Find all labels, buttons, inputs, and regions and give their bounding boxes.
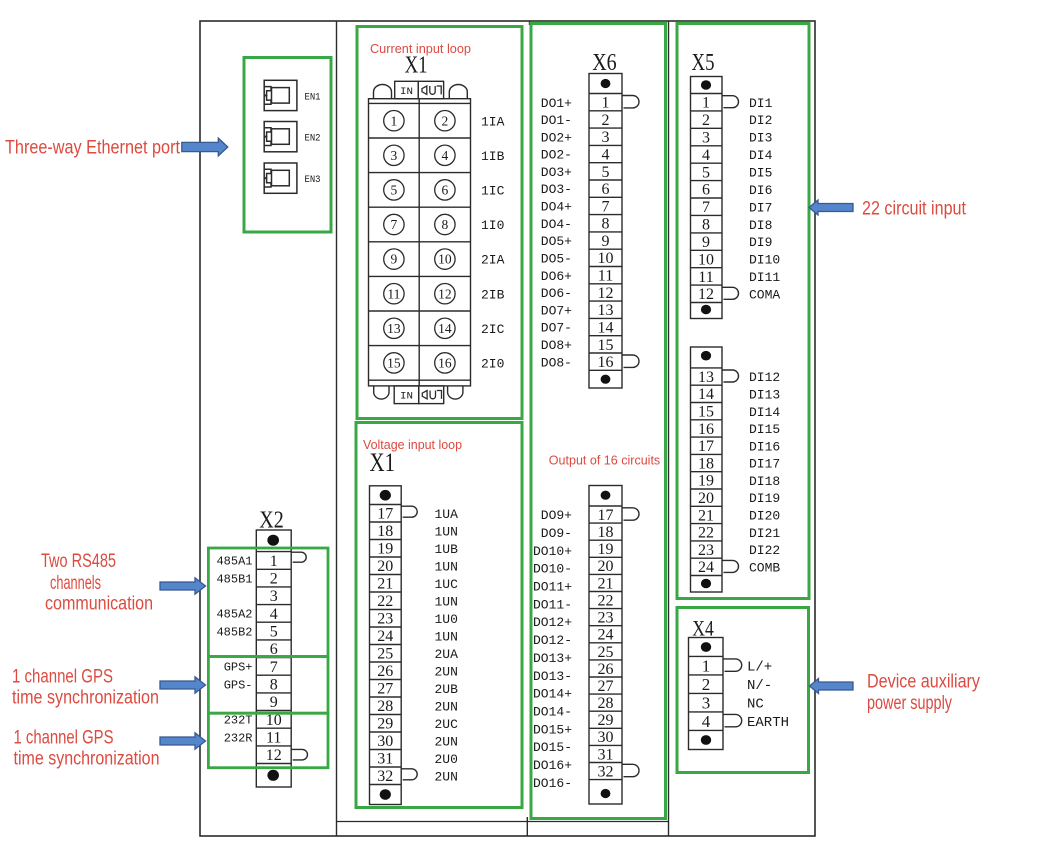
svg-text:32: 32 (377, 768, 393, 785)
X6 terminal 6 (DO3-) (541, 181, 610, 198)
X1 voltage terminal 22 (377, 593, 458, 610)
svg-text:DI7: DI7 (749, 200, 772, 215)
svg-text:DO3+: DO3+ (541, 165, 572, 180)
X4 bottom keying dot (701, 735, 711, 745)
RS232 group green box (208, 713, 328, 768)
svg-text:1 channel GPS: 1 channel GPS (14, 728, 114, 749)
X1 current terminal 8 (435, 214, 455, 234)
X6 terminal 21 (DO11+) (533, 575, 614, 594)
svg-text:3: 3 (270, 588, 278, 605)
svg-text:32: 32 (598, 763, 614, 780)
svg-text:17: 17 (698, 438, 714, 455)
X1 voltage terminal 30 (377, 733, 458, 750)
X6 terminal 27 (DO14+) (533, 678, 614, 702)
X4 terminal 4 (EARTH) (702, 712, 789, 731)
X1 voltage terminal 20 (377, 558, 458, 575)
X1 voltage terminal 24 (377, 628, 458, 645)
svg-text:DO1-: DO1- (541, 113, 572, 128)
X5 terminal 9 (DI9) (702, 234, 772, 251)
svg-text:22: 22 (377, 593, 393, 610)
svg-text:DI20: DI20 (749, 509, 780, 524)
svg-text:4: 4 (702, 147, 710, 164)
svg-text:9: 9 (602, 233, 610, 250)
svg-text:DI8: DI8 (749, 218, 772, 233)
svg-text:31: 31 (598, 746, 614, 763)
X5 terminal 19 (DI18) (698, 473, 780, 490)
X5 terminal 7 (DI7) (702, 199, 772, 216)
X5 terminal 8 (DI8) (702, 217, 772, 234)
svg-text:3: 3 (602, 129, 610, 146)
svg-text:EN2: EN2 (305, 133, 321, 145)
svg-text:1U0: 1U0 (435, 612, 458, 627)
svg-text:2UN: 2UN (435, 769, 458, 784)
X6 terminal 28 (DO14-) (533, 695, 614, 720)
svg-text:14: 14 (438, 321, 452, 336)
X6 terminal 32 (DO16-) (533, 763, 639, 791)
svg-text:5: 5 (702, 164, 710, 181)
svg-text:12: 12 (598, 285, 614, 302)
svg-text:16: 16 (438, 356, 452, 371)
svg-text:18: 18 (598, 524, 614, 541)
X5 terminal 1 (DI1) (702, 95, 773, 112)
svg-text:12: 12 (266, 747, 282, 764)
X1 current terminal 9 (384, 249, 404, 269)
X6 terminal 9 (DO5+) (541, 233, 610, 250)
svg-text:1IB: 1IB (481, 149, 505, 164)
X4 terminal 1 (L/+) (702, 656, 772, 675)
svg-text:DI21: DI21 (749, 526, 780, 541)
svg-text:4: 4 (602, 147, 610, 164)
svg-text:22: 22 (698, 525, 714, 542)
X1 voltage terminal 18 (377, 523, 458, 540)
X2 terminal 3 (270, 588, 278, 605)
svg-text:DI17: DI17 (749, 457, 780, 472)
svg-text:COMB: COMB (749, 561, 780, 576)
X5 upper connector body (691, 77, 723, 319)
svg-text:232T: 232T (224, 714, 253, 728)
X1 voltage terminal 26 (377, 663, 458, 680)
svg-text:2I0: 2I0 (481, 357, 504, 372)
X6 terminal 16 (DO8-) (541, 354, 639, 371)
svg-text:22: 22 (598, 592, 614, 609)
X6 terminal 24 (DO12-) (533, 627, 614, 649)
voltage input loop green box (356, 423, 522, 808)
X1 current terminal 3 (384, 145, 404, 165)
svg-text:17: 17 (377, 506, 393, 523)
svg-text:Three-way Ethernet port: Three-way Ethernet port (5, 138, 181, 159)
svg-text:6: 6 (602, 181, 610, 198)
X2 terminal 9 (270, 694, 278, 711)
svg-text:DO8+: DO8+ (541, 338, 572, 353)
svg-text:20: 20 (377, 558, 393, 575)
X1 current terminal 2 (435, 111, 455, 131)
X1 current terminal 10 (435, 249, 455, 269)
svg-text:DI1: DI1 (749, 96, 773, 111)
svg-text:14: 14 (698, 386, 714, 403)
svg-text:1: 1 (270, 553, 278, 570)
panel divider 3 (668, 21, 670, 836)
X1 voltage terminal 21 (377, 576, 458, 593)
X6 terminal 19 (DO10+) (533, 541, 614, 559)
X1 current terminal 11 (384, 284, 404, 304)
X6 terminal 12 (DO6-) (541, 285, 614, 302)
X6 upper connector body (589, 74, 622, 389)
svg-text:DI9: DI9 (749, 235, 772, 250)
X5 terminal 3 (DI3) (702, 130, 772, 147)
arrow to ethernet ports (182, 138, 228, 156)
svg-text:DI5: DI5 (749, 166, 772, 181)
label: 1 channel GPS time synchronization (GPS) (12, 667, 159, 709)
ethernet port EN1 (264, 80, 320, 110)
svg-text:DO14-: DO14- (533, 705, 572, 720)
svg-text:2: 2 (702, 675, 711, 694)
svg-text:1: 1 (391, 113, 398, 128)
arrow to RS232 terminals (160, 733, 206, 749)
X5 terminal 4 (DI4) (702, 147, 773, 164)
svg-text:6: 6 (442, 183, 449, 198)
X1 current terminal 6 (435, 180, 455, 200)
svg-text:9: 9 (391, 252, 398, 267)
X6 terminal 18 (DO9-) (541, 524, 614, 541)
X5 terminal 22 (DI21) (698, 525, 780, 542)
svg-text:DO2-: DO2- (541, 148, 572, 163)
label: Device auxiliary power supply (867, 672, 980, 714)
X2 terminal 11 (224, 729, 282, 746)
X6 terminal 13 (DO7+) (541, 302, 614, 319)
X1 voltage terminal 19 (377, 541, 458, 558)
X5 terminal 16 (DI15) (698, 421, 780, 438)
svg-text:15: 15 (698, 404, 714, 421)
X5 terminal 21 (DI20) (698, 507, 780, 524)
X1 top IN marker box (395, 81, 419, 98)
svg-text:DO4+: DO4+ (541, 200, 572, 215)
svg-text:DI15: DI15 (749, 422, 780, 437)
svg-text:5: 5 (391, 183, 398, 198)
current input loop green box (357, 27, 522, 419)
svg-text:20: 20 (698, 490, 714, 507)
svg-text:time synchronization: time synchronization (14, 749, 160, 770)
svg-text:9: 9 (270, 694, 278, 711)
svg-text:1UN: 1UN (435, 524, 458, 539)
X6 lower connector body (589, 486, 622, 805)
X1 current terminal 4 (435, 145, 455, 165)
device outer frame (200, 21, 815, 836)
svg-text:30: 30 (377, 733, 393, 750)
svg-text:DO2+: DO2+ (541, 130, 572, 145)
panel divider 1 (336, 21, 338, 836)
X2 top keying dot (267, 535, 279, 546)
svg-text:channels: channels (50, 573, 101, 594)
svg-text:power supply: power supply (867, 693, 952, 714)
X4 terminal 3 (NC) (702, 693, 764, 712)
X6 terminal 1 (DO1+) (541, 95, 639, 112)
svg-text:DO7-: DO7- (541, 321, 572, 336)
X6 terminal 7 (DO4+) (541, 198, 610, 215)
svg-text:time synchronization: time synchronization (12, 688, 159, 709)
X4 top keying dot (701, 642, 711, 652)
svg-text:28: 28 (598, 695, 614, 712)
svg-text:2: 2 (602, 112, 610, 129)
svg-text:485A2: 485A2 (216, 608, 252, 622)
X1 voltage terminal 29 (377, 716, 458, 733)
svg-text:DI4: DI4 (749, 148, 773, 163)
X2 terminal 4 (216, 606, 277, 623)
X1 current terminal 13 (384, 318, 404, 338)
X2 terminal 1 (216, 552, 306, 570)
svg-text:2UB: 2UB (435, 682, 459, 697)
svg-text:5: 5 (602, 164, 610, 181)
svg-text:3: 3 (391, 148, 398, 163)
svg-text:29: 29 (598, 712, 614, 729)
X5 terminal 15 (DI14) (698, 404, 780, 421)
svg-text:2UA: 2UA (435, 647, 459, 662)
X1 bottom-right mounting lug (448, 386, 463, 399)
svg-text:DI12: DI12 (749, 370, 780, 385)
X5 terminal 17 (DI16) (698, 438, 780, 455)
svg-text:12: 12 (438, 286, 452, 301)
svg-text:8: 8 (270, 676, 278, 693)
X1 current terminal 5 (384, 180, 404, 200)
svg-text:30: 30 (598, 729, 614, 746)
svg-text:COMA: COMA (749, 287, 780, 302)
X6 terminal 8 (DO4-) (541, 216, 610, 233)
RS485 group green box (208, 548, 328, 657)
X6 lower bottom keying dot (601, 789, 611, 798)
connector X2 body (256, 530, 291, 787)
svg-text:25: 25 (377, 646, 393, 663)
svg-text:18: 18 (377, 523, 393, 540)
svg-text:1: 1 (702, 95, 710, 112)
svg-text:DI16: DI16 (749, 439, 780, 454)
label: Two RS485 channels communication (41, 551, 153, 615)
svg-text:23: 23 (377, 611, 393, 628)
X5 lower top keying dot (701, 351, 711, 361)
svg-text:1I0: 1I0 (481, 218, 504, 233)
X5 terminal 23 (DI22) (698, 542, 780, 559)
arrow to X4 power terminals (810, 679, 854, 694)
X5 lower bottom keying dot (701, 579, 711, 589)
X2 bottom keying dot (267, 770, 279, 781)
svg-text:5: 5 (270, 624, 278, 641)
X1 voltage terminal 32 (377, 768, 458, 785)
X2 terminal 6 (270, 641, 278, 658)
svg-text:DI11: DI11 (749, 270, 780, 285)
svg-text:DO15+: DO15+ (533, 722, 572, 737)
svg-text:1UN: 1UN (435, 559, 458, 574)
X1 current terminal 16 (435, 353, 455, 373)
svg-text:21: 21 (598, 575, 614, 592)
svg-text:L/+: L/+ (747, 660, 772, 676)
X2 terminal 12 (266, 747, 308, 764)
svg-text:1UB: 1UB (435, 542, 459, 557)
svg-text:DO16-: DO16- (533, 776, 572, 791)
svg-text:2: 2 (702, 112, 710, 129)
svg-text:24: 24 (598, 627, 614, 644)
X6 terminal 20 (DO10-) (533, 558, 614, 577)
svg-text:19: 19 (598, 541, 614, 558)
svg-text:1UA: 1UA (435, 507, 459, 522)
svg-text:X6: X6 (592, 50, 617, 76)
svg-text:2UN: 2UN (435, 664, 458, 679)
svg-text:DI14: DI14 (749, 405, 780, 420)
X6 terminal 22 (DO11-) (533, 592, 614, 612)
X1 bottom-left mounting lug (374, 386, 389, 399)
svg-text:DI13: DI13 (749, 387, 780, 402)
X1 voltage terminal 17 (377, 506, 458, 523)
svg-text:7: 7 (702, 199, 710, 216)
X5 upper top keying dot (701, 80, 711, 90)
X6 terminal 2 (DO1-) (541, 112, 610, 129)
X6 terminal 14 (DO7-) (541, 319, 614, 336)
svg-text:DO7+: DO7+ (541, 303, 572, 318)
svg-text:1: 1 (602, 95, 610, 112)
X1 voltage top keying dot (380, 490, 391, 501)
arrow to GPS terminals (160, 677, 206, 693)
X6 terminal 17 (DO9+) (541, 507, 639, 524)
X6 terminal 3 (DO2+) (541, 129, 610, 146)
svg-text:10: 10 (598, 250, 614, 267)
X1 voltage bottom keying dot (380, 789, 391, 800)
X5 terminal 2 (DI2) (702, 112, 772, 129)
X5 terminal 24 (COMB) (698, 559, 780, 576)
svg-text:4: 4 (702, 712, 711, 731)
arrow to X5 inputs (809, 200, 853, 215)
svg-text:16: 16 (598, 354, 614, 371)
X6 terminal 31 (DO16+) (533, 746, 614, 773)
svg-text:communication: communication (45, 594, 153, 615)
svg-text:8: 8 (602, 216, 610, 233)
X1 voltage terminal 23 (377, 611, 458, 628)
X6 terminal 23 (DO12+) (533, 610, 614, 631)
ethernet port EN2 (264, 122, 320, 152)
label: 1 channel GPS time synchronization (RS232) (14, 728, 160, 770)
svg-text:DI10: DI10 (749, 253, 780, 268)
X1 top-left mounting lug (374, 85, 392, 99)
X1 current terminal 15 (384, 353, 404, 373)
X6 terminal 4 (DO2-) (541, 147, 610, 164)
X6 terminal 29 (DO15+) (533, 712, 614, 737)
X5 terminal 12 (COMA) (698, 286, 780, 303)
svg-text:EN1: EN1 (305, 91, 321, 103)
svg-text:GPS+: GPS+ (224, 661, 253, 675)
X1 voltage terminal 25 (377, 646, 458, 663)
svg-text:13: 13 (598, 302, 614, 319)
svg-text:2: 2 (270, 571, 278, 588)
svg-text:15: 15 (598, 337, 614, 354)
svg-text:11: 11 (387, 286, 400, 301)
ethernet port EN3 (264, 163, 320, 193)
svg-text:IN: IN (400, 86, 413, 98)
svg-text:22 circuit input: 22 circuit input (862, 198, 967, 219)
X4 connector body (689, 638, 724, 750)
svg-text:3: 3 (702, 693, 711, 712)
svg-text:DO12-: DO12- (533, 633, 572, 648)
svg-text:DO9-: DO9- (541, 526, 572, 541)
X5 terminal 10 (DI10) (698, 251, 780, 268)
X4 power green box (677, 608, 809, 773)
svg-text:11: 11 (266, 729, 281, 746)
X2 terminal 10 (224, 712, 282, 729)
svg-text:DO10-: DO10- (533, 562, 572, 577)
svg-text:24: 24 (698, 559, 714, 576)
svg-text:19: 19 (377, 541, 393, 558)
svg-text:4: 4 (270, 606, 278, 623)
svg-text:9: 9 (702, 234, 710, 251)
svg-text:DO9+: DO9+ (541, 508, 572, 523)
svg-text:485B1: 485B1 (216, 572, 252, 586)
panel divider 2 (bottom stub) (526, 817, 528, 836)
svg-text:7: 7 (602, 198, 610, 215)
svg-text:17: 17 (598, 507, 614, 524)
ethernet ports green box (244, 58, 331, 233)
svg-text:14: 14 (598, 319, 614, 336)
X6 outputs green box (531, 24, 666, 819)
svg-text:18: 18 (698, 455, 714, 472)
svg-text:6: 6 (702, 182, 710, 199)
X6 lower top keying dot (601, 491, 611, 500)
X6 terminal 25 (DO13+) (533, 644, 614, 666)
svg-text:485B2: 485B2 (216, 625, 252, 639)
svg-text:10: 10 (438, 252, 452, 267)
svg-text:2: 2 (442, 113, 449, 128)
X1 top-right mounting lug (449, 85, 467, 99)
X4 terminal 2 (N/-) (702, 675, 772, 694)
svg-text:27: 27 (377, 681, 393, 698)
svg-text:DI3: DI3 (749, 131, 772, 146)
svg-text:2UN: 2UN (435, 734, 458, 749)
svg-text:2UC: 2UC (435, 717, 459, 732)
X6 terminal 10 (DO5-) (541, 250, 614, 267)
svg-text:2UN: 2UN (435, 699, 458, 714)
X5 upper bottom keying dot (701, 305, 711, 315)
svg-text:1IC: 1IC (481, 184, 505, 199)
svg-text:DO13+: DO13+ (533, 651, 572, 666)
svg-text:1UN: 1UN (435, 629, 458, 644)
svg-text:DO8-: DO8- (541, 355, 572, 370)
X1 voltage terminal 31 (377, 751, 458, 768)
svg-text:DI22: DI22 (749, 543, 780, 558)
svg-text:Output of 16 circuits: Output of 16 circuits (549, 452, 661, 467)
svg-text:12: 12 (698, 286, 714, 303)
GPS group green box (208, 657, 328, 714)
X1 bottom IN marker box (394, 386, 419, 404)
svg-text:EARTH: EARTH (747, 715, 789, 731)
svg-text:DI6: DI6 (749, 183, 772, 198)
svg-text:23: 23 (598, 610, 614, 627)
svg-text:1UC: 1UC (435, 577, 459, 592)
X1 voltage terminal 28 (377, 698, 458, 715)
X1 current terminal 12 (435, 284, 455, 304)
svg-text:8: 8 (702, 217, 710, 234)
X1 voltage terminal 27 (377, 681, 458, 698)
svg-text:DO4-: DO4- (541, 217, 572, 232)
svg-text:Two RS485: Two RS485 (41, 551, 116, 572)
X1 voltage connector body (370, 486, 402, 805)
svg-text:2IB: 2IB (481, 287, 505, 302)
svg-text:DO13-: DO13- (533, 669, 572, 684)
X1 current terminal 14 (435, 318, 455, 338)
X5 terminal 5 (DI5) (702, 164, 772, 181)
svg-text:16: 16 (698, 421, 714, 438)
X5 terminal 11 (DI11) (698, 269, 780, 286)
svg-text:11: 11 (698, 269, 713, 286)
svg-text:DO6-: DO6- (541, 286, 572, 301)
X5 terminal 18 (DI17) (698, 455, 780, 472)
svg-text:7: 7 (391, 217, 398, 232)
svg-text:X1: X1 (405, 53, 428, 79)
svg-text:DO11+: DO11+ (533, 580, 572, 595)
X5 terminal 6 (DI6) (702, 182, 772, 199)
